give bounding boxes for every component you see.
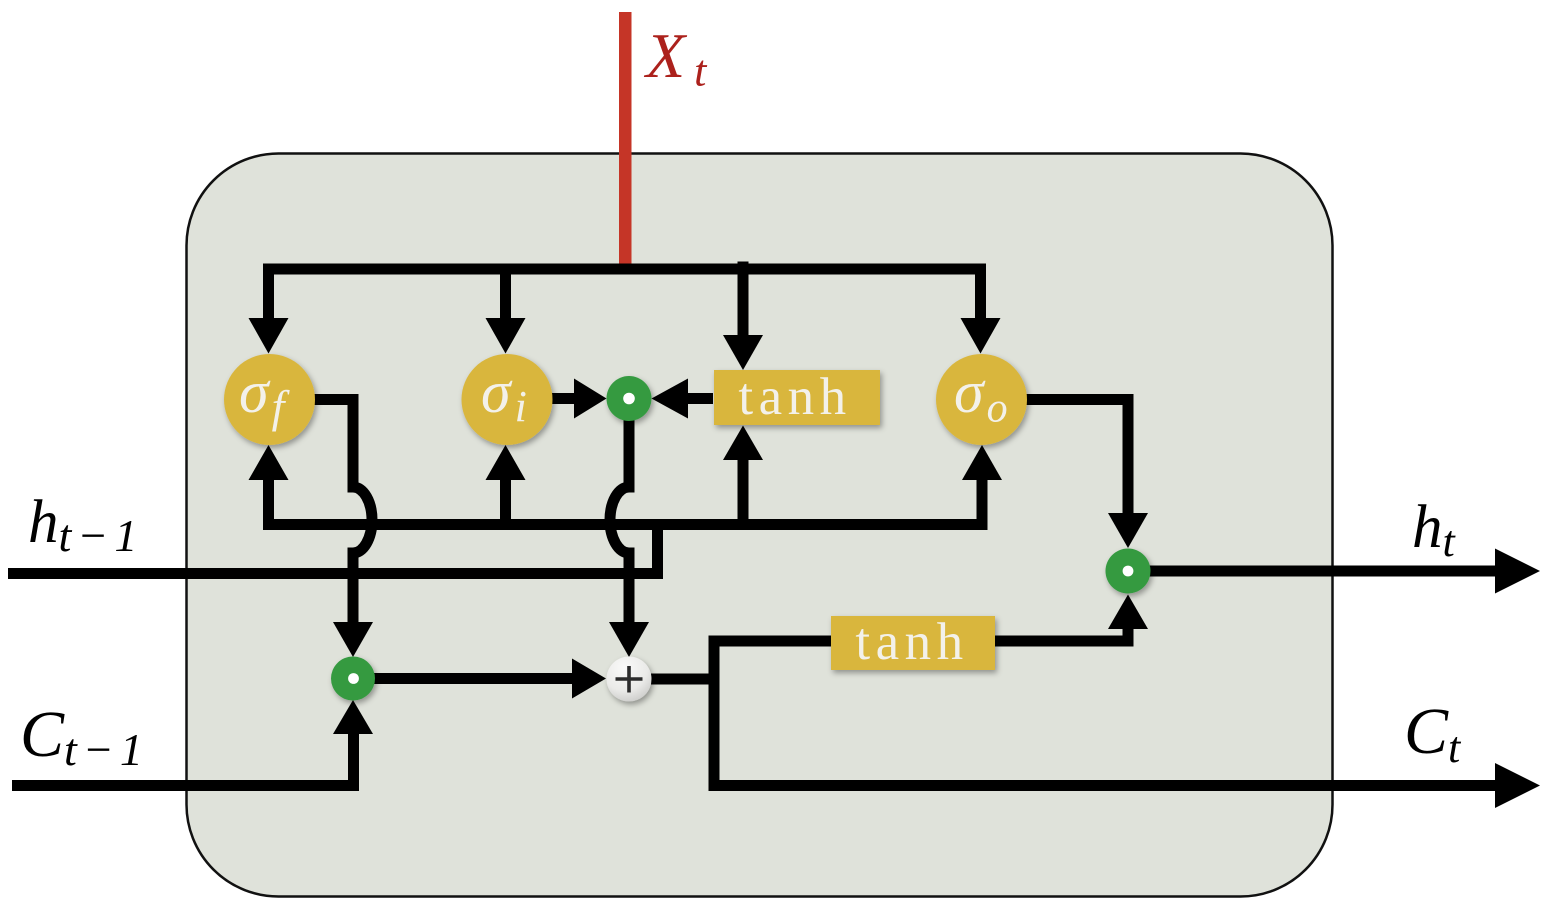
arrowhead into plus top — [609, 622, 649, 657]
hadamard-mid (input product) — [607, 376, 652, 421]
plus node — [607, 657, 652, 702]
arrowhead into hadamard-mid right — [652, 379, 689, 419]
arrowhead into hadamard-mid left — [574, 379, 607, 419]
riser from line B up to line A — [652, 525, 663, 579]
arrowhead into hadamard1 bottom — [333, 700, 373, 734]
svg-text:Ct: Ct — [1404, 695, 1462, 772]
wire sigma_o output down to hadamard2 — [1026, 400, 1128, 515]
riser to sigma_i — [500, 480, 511, 525]
C_t output wire — [709, 780, 1497, 791]
wire T junction up to tanh2 and down to C_t — [714, 641, 831, 786]
arrowhead into tanh1 bottom — [723, 426, 763, 461]
svg-text:ht−1: ht−1 — [28, 489, 143, 561]
wire drop to sigma_i — [500, 269, 511, 319]
wire tanh2 output up to hadamard2 — [995, 629, 1128, 641]
arrowhead into sigma_o top — [961, 318, 1001, 354]
riser to tanh1 — [738, 460, 749, 525]
arrowhead into hadamard1 top — [333, 622, 373, 657]
top input bus wire — [269, 269, 981, 319]
tanh1 box — [714, 370, 880, 425]
wire tanh1 to hadamard-mid — [688, 393, 713, 404]
arrowhead into sigma_o bottom — [962, 445, 1002, 480]
svg-text:Ct−1: Ct−1 — [20, 698, 149, 775]
arrowhead into sigma_i bottom — [486, 445, 526, 480]
arrowhead into sigma_i top — [486, 318, 526, 354]
gate sigma_i — [462, 354, 553, 445]
arrowhead into hadamard2 top — [1108, 513, 1148, 548]
svg-text:Xt: Xt — [643, 20, 708, 96]
wire hadamard-mid output with bridge hop — [610, 420, 629, 623]
input X_t line — [619, 12, 632, 266]
arrowhead C_t output — [1495, 763, 1540, 808]
C_t-1 input wire — [12, 734, 354, 786]
wire drop to tanh1 — [738, 262, 749, 337]
arrowhead into sigma_f top — [249, 318, 289, 354]
svg-text:ht: ht — [1412, 494, 1457, 566]
wire plus output to T junction — [651, 674, 714, 685]
wire sigma_f output with bridge hop — [314, 400, 372, 624]
svg-text:tanh: tanh — [855, 613, 968, 671]
tanh2 box — [831, 616, 995, 670]
wire sigma_i to hadamard-mid — [551, 393, 575, 404]
arrowhead into tanh1 top — [723, 335, 763, 370]
LSTM cell body — [187, 154, 1333, 897]
gate sigma_o — [936, 354, 1027, 445]
arrowhead into hadamard2 bottom — [1108, 595, 1148, 630]
hadamard1 (forget product) — [331, 657, 375, 701]
gate sigma_f — [224, 354, 315, 445]
h_t output wire — [1149, 566, 1496, 577]
arrowhead into plus left — [572, 659, 606, 699]
hadamard2 (output product) — [1106, 549, 1151, 594]
inner h distribution wire (line A) — [269, 480, 983, 525]
arrowhead into sigma_f bottom — [249, 445, 289, 480]
h_t-1 input wire (line B) — [8, 568, 663, 579]
svg-text:tanh: tanh — [738, 368, 851, 426]
arrowhead h_t output — [1495, 549, 1540, 594]
wire hadamard1 to plus — [374, 673, 573, 684]
